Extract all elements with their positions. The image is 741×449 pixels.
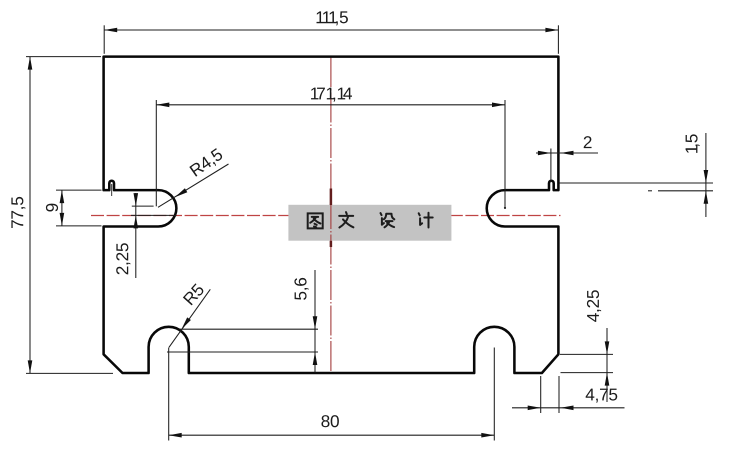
node slot center right [504, 207, 506, 209]
left notch inner extension [111, 184, 113, 196]
dim 5,6 [314, 270, 316, 373]
dim 4,25 [606, 328, 608, 402]
dim 1,5 [705, 133, 707, 217]
part outline [104, 57, 559, 373]
dim 171,14 [155, 100, 157, 206]
dim 2,25 [135, 193, 137, 278]
leader R5 [169, 289, 210, 347]
dim 9 [56, 189, 102, 191]
leader R4,5 [158, 164, 229, 207]
red horizontal centerline [91, 215, 561, 217]
watermark text 图文设计 [308, 213, 323, 228]
dim 80 [168, 348, 170, 441]
watermark box [288, 205, 451, 241]
dim 2 [536, 152, 598, 154]
dim 77,5 [26, 56, 101, 58]
red vertical centerline [330, 57, 332, 373]
dim 4,75 [512, 407, 625, 409]
dim 111,5 [103, 25, 105, 54]
